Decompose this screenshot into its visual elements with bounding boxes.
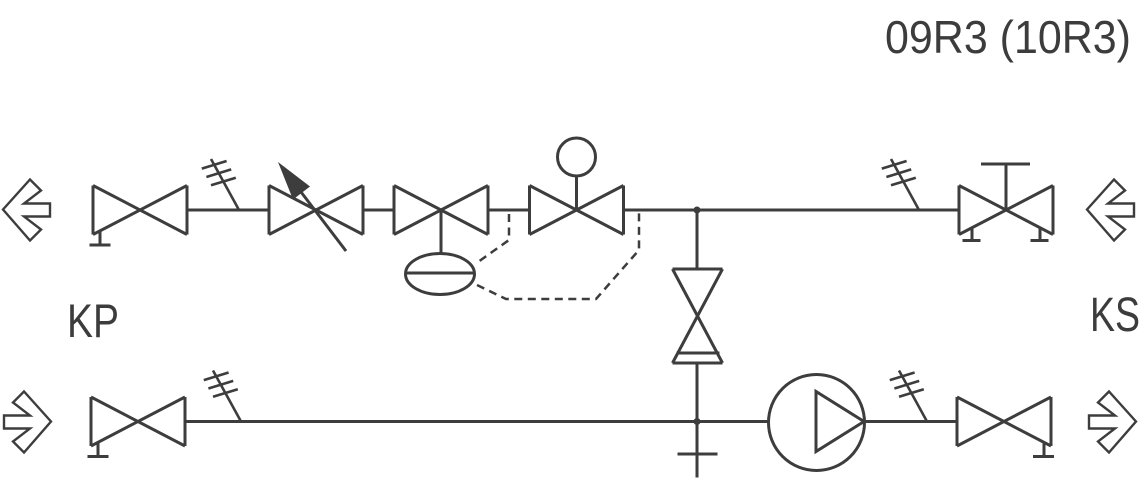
wire bottom: pump to valve V7 [865, 420, 956, 423]
riser wire check valve to bottom pipe [696, 363, 699, 422]
drain foot of valve V6 [88, 442, 109, 457]
measuring element ellipse of V3 [406, 254, 475, 295]
test point sensor bottom-left [204, 371, 241, 422]
shut-off valve V6 bottom-left [91, 397, 185, 446]
shut-off valve V1 top-left [93, 186, 187, 235]
test point sensor bottom-right [890, 371, 927, 422]
pump P1 body [769, 375, 865, 471]
stem to measuring element of V3 [440, 210, 443, 254]
drain foot of valve V7 [1033, 442, 1054, 457]
drain connection below junction [678, 422, 718, 478]
right drain foot of V5 [1031, 229, 1049, 241]
wire top: V1 to balancing valve [187, 209, 269, 212]
wire top: V3 to control valve [488, 209, 530, 212]
diaphragm line of V3 [406, 272, 474, 275]
junction node bottom [694, 418, 701, 425]
control valve V4 [530, 186, 624, 235]
test point sensor top-left [202, 159, 239, 210]
junction node top [694, 207, 701, 214]
balancing valve V2 with adjustment arrow [269, 186, 363, 235]
wire top: V4 to ball valve [624, 209, 960, 212]
stem of balancing valve V2 [301, 192, 346, 251]
test point sensor top-right [882, 159, 919, 210]
impulse line lower (dashed) [477, 213, 639, 299]
wire top: V2 to measuring valve [363, 209, 394, 212]
drain foot of valve V1 [90, 231, 111, 246]
measuring balancing valve V3 [394, 186, 488, 235]
flow arrow bottom-left (incoming, points right) [4, 392, 51, 453]
riser wire to check valve [696, 210, 699, 269]
impulse line upper (dashed) [478, 214, 509, 262]
flow arrow bottom-right (outgoing, points right) [1089, 392, 1136, 453]
left drain foot of V5 [963, 229, 981, 241]
svg-text:KP: KP [67, 294, 119, 347]
flow arrow top-right (incoming, points left) [1087, 180, 1134, 241]
stem of control valve V4 [575, 176, 578, 210]
wire bottom: V6 to pump [185, 420, 768, 423]
pump P1 impeller triangle [816, 392, 864, 452]
actuator head of control valve V4 [558, 138, 596, 176]
svg-text:KS: KS [1090, 289, 1139, 342]
flow arrow top-left (outgoing, points left) [3, 180, 50, 241]
svg-text:09R3 (10R3): 09R3 (10R3) [885, 11, 1131, 63]
arrowhead of balancing valve V2 [278, 162, 310, 200]
check valve CV [673, 269, 723, 363]
T-handle of valve V5 [981, 164, 1030, 210]
shut-off valve V7 bottom-right [957, 397, 1051, 446]
ball valve V5 top-right [959, 186, 1053, 235]
